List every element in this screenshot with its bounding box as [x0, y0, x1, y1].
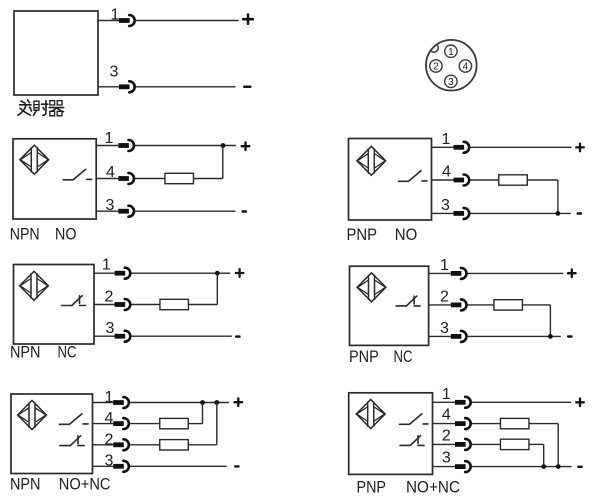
connector plug pin4: [118, 173, 134, 184]
connector pin 2: [430, 60, 442, 73]
svg-text:3: 3: [440, 320, 449, 337]
plus terminal: [576, 144, 584, 152]
svg-text:3: 3: [106, 320, 115, 337]
wire pin1: [93, 402, 230, 404]
connector plug pin2: [115, 299, 131, 310]
svg-text:NPN: NPN: [10, 342, 41, 361]
wire pin3: [93, 465, 227, 467]
plus terminal: [242, 142, 250, 150]
connector plug pin3: [113, 461, 129, 472]
connector pin 4: [459, 60, 471, 73]
svg-text:2: 2: [433, 62, 439, 73]
junction node: [221, 143, 226, 148]
wire pin4 with load: [432, 180, 558, 213]
sensor box NPN NC: [14, 265, 95, 345]
sensor symbol: [357, 273, 386, 302]
svg-text:4: 4: [463, 62, 469, 73]
load resistor NC: [500, 439, 529, 449]
M12 connector face: [426, 40, 477, 91]
connector plug pin1: [455, 397, 471, 408]
svg-text:NO+NC: NO+NC: [406, 477, 460, 496]
NC switch contact: [396, 296, 420, 306]
svg-text:2: 2: [105, 431, 114, 448]
load resistor: [494, 300, 523, 310]
NO switch contact: [63, 169, 92, 180]
wire pin2 with load: [93, 403, 217, 445]
wire pin1: [429, 272, 564, 274]
sensor box PNP NO: [349, 139, 432, 221]
sensor symbol: [20, 271, 49, 300]
minus terminal emitter: [244, 86, 250, 89]
svg-text:PNP: PNP: [357, 477, 387, 496]
svg-text:PNP: PNP: [347, 225, 378, 244]
svg-text:3: 3: [105, 453, 114, 470]
wire pin3: [94, 335, 232, 337]
plus terminal: [576, 399, 584, 407]
NC switch contact: [60, 436, 84, 446]
connector plug pin1: [113, 397, 129, 408]
plus terminal: [235, 398, 243, 406]
NC switch contact: [400, 436, 424, 446]
junction node: [548, 334, 553, 339]
load resistor: [160, 299, 189, 309]
svg-text:1: 1: [102, 257, 111, 274]
connector plug pin1: [451, 268, 467, 279]
wire pin1: [432, 146, 572, 148]
sensor symbol: [18, 401, 47, 430]
minus terminal: [578, 466, 581, 468]
plus terminal: [568, 269, 576, 277]
connector plug pin2: [113, 439, 129, 450]
minus terminal: [243, 211, 246, 213]
load resistor: [165, 173, 194, 183]
sensor box NPN NO+NC: [11, 394, 93, 474]
svg-text:NO: NO: [55, 224, 77, 243]
svg-text:1: 1: [442, 386, 451, 403]
svg-text:2: 2: [440, 288, 449, 305]
svg-text:4: 4: [105, 410, 114, 427]
plus terminal: [236, 269, 244, 277]
NO switch contact: [60, 414, 89, 425]
svg-text:1: 1: [442, 131, 451, 148]
NC switch contact: [62, 296, 86, 306]
sensor symbol: [357, 146, 386, 175]
load resistor: [499, 175, 528, 185]
svg-text:NC: NC: [58, 342, 77, 361]
wire pin4 with load: [96, 146, 223, 179]
junction node: [215, 271, 220, 276]
svg-text:1: 1: [105, 130, 114, 147]
svg-text:3: 3: [441, 197, 450, 214]
svg-text:2: 2: [442, 427, 451, 444]
sensor box PNP NC: [350, 266, 429, 345]
connector plug pin3: [455, 461, 471, 472]
svg-text:1: 1: [448, 47, 454, 58]
svg-text:1: 1: [105, 389, 114, 406]
svg-text:NO+NC: NO+NC: [59, 475, 111, 494]
wire pin1 emitter: [98, 20, 239, 22]
connector plug pin4: [455, 418, 471, 429]
emitter box 发射器: [14, 11, 98, 95]
wire pin3: [96, 210, 235, 212]
wire pin4 with load: [93, 403, 203, 424]
junction node B: [214, 400, 219, 405]
svg-text:3: 3: [448, 77, 454, 88]
wire pin1: [433, 401, 572, 403]
junction node A: [200, 400, 205, 405]
connector plug pin4: [113, 418, 129, 429]
sensor symbol: [20, 145, 49, 174]
svg-text:4: 4: [442, 164, 451, 181]
svg-text:4: 4: [442, 407, 451, 424]
svg-text:NC: NC: [394, 347, 413, 366]
connector plug pin3 emitter: [119, 81, 135, 92]
plus terminal emitter: [243, 15, 253, 24]
connector plug pin3: [454, 208, 470, 219]
junction node B: [556, 464, 561, 469]
wire pin1: [96, 145, 236, 147]
wire pin3 emitter: [98, 86, 236, 88]
NO switch contact: [400, 414, 429, 425]
minus terminal: [578, 213, 581, 215]
junction node: [556, 211, 561, 216]
connector plug pin3: [118, 206, 134, 217]
svg-text:PNP: PNP: [349, 347, 379, 366]
load resistor NC: [160, 440, 189, 450]
svg-text:NPN: NPN: [10, 475, 41, 494]
NO switch contact: [399, 171, 428, 182]
connector plug pin1 emitter: [119, 15, 135, 26]
wire pin2 with load: [429, 305, 551, 337]
wire pin2 with load: [94, 273, 217, 304]
sensor box PNP NO+NC: [349, 393, 433, 475]
wire pin3: [433, 466, 572, 468]
connector plug pin3: [115, 331, 131, 342]
connector plug pin3: [451, 331, 467, 342]
connector pin 1: [445, 45, 457, 58]
connector plug pin4: [454, 175, 470, 186]
minus terminal: [235, 465, 238, 467]
connector plug pin1: [115, 268, 131, 279]
svg-text:2: 2: [105, 288, 114, 305]
connector pin 3: [445, 75, 457, 88]
junction node A: [541, 464, 546, 469]
wire pin1: [94, 272, 230, 274]
connector plug pin2: [455, 439, 471, 450]
minus terminal: [568, 336, 571, 338]
connector plug pin1: [454, 142, 470, 153]
sensor symbol: [356, 400, 385, 429]
label 发射器: [18, 100, 64, 116]
minus terminal: [236, 336, 239, 338]
keying notch: [430, 44, 439, 53]
sensor box NPN NO: [13, 139, 96, 219]
wire pin4 with load: [433, 424, 559, 467]
svg-text:1: 1: [440, 257, 449, 274]
connector plug pin1: [118, 140, 134, 151]
svg-text:3: 3: [442, 449, 451, 466]
svg-text:NO: NO: [395, 225, 418, 244]
svg-text:3: 3: [110, 64, 119, 81]
wire pin3: [432, 212, 571, 214]
svg-text:NPN: NPN: [10, 224, 40, 243]
load resistor NO: [500, 418, 529, 428]
wire pin3: [429, 335, 561, 337]
load resistor NO: [160, 418, 189, 428]
wire pin2 with load: [433, 444, 544, 466]
connector plug pin2: [451, 299, 467, 310]
